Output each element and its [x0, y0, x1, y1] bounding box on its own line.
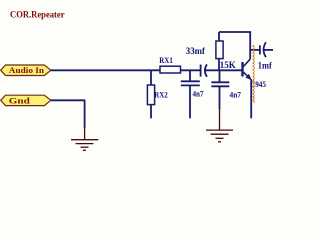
wire top rail [219, 32, 250, 59]
svg-text:4n7: 4n7 [193, 88, 205, 98]
svg-text:15K: 15K [220, 60, 236, 70]
resistor RX2 [147, 85, 167, 118]
port Audio In [1, 65, 51, 76]
svg-text:COR.Repeater: COR.Repeater [10, 10, 65, 20]
resistor 15K [216, 32, 236, 70]
svg-text:1mf: 1mf [258, 61, 273, 71]
svg-text:RX1: RX1 [159, 55, 173, 65]
svg-text:33mf: 33mf [186, 46, 206, 56]
capacitor 33mf (series electrolytic) [186, 46, 207, 76]
wire RX1 to 33mf cap [181, 69, 201, 71]
wire cap2 stem [219, 70, 221, 82]
ground GND2 [206, 108, 233, 142]
port Gnd [1, 95, 51, 105]
svg-text:4n7: 4n7 [230, 89, 242, 99]
wire gnd vertical [84, 100, 86, 129]
wire 33mf to transistor base [205, 69, 242, 71]
no-ERC orange zigzag marker [252, 45, 254, 103]
wire cap1 stem [189, 70, 191, 81]
svg-text:Gnd: Gnd [9, 96, 31, 105]
capacitor C 4n7 (first) [181, 81, 204, 118]
wire gnd horizontal [51, 99, 85, 101]
svg-text:C945: C945 [250, 79, 266, 89]
transistor Q1 C945 [243, 59, 267, 119]
resistor RX1 [159, 55, 180, 73]
ground GND1 [71, 128, 98, 150]
svg-text:RX2: RX2 [154, 90, 168, 99]
capacitor 1mf (output) [250, 42, 273, 70]
svg-text:Audio In: Audio In [9, 66, 45, 75]
wire RX2 branch top [150, 70, 152, 85]
capacitor 4n7 (second) [211, 82, 241, 109]
wire main audio line left [51, 69, 160, 71]
